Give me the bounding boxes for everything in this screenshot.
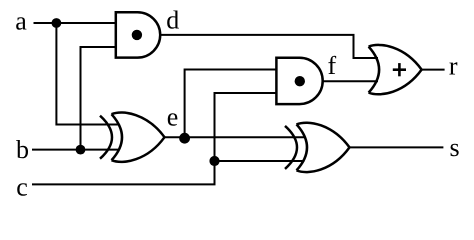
and dot U1	[132, 30, 142, 40]
wire b	[32, 149, 120, 151]
wire f from AND2 to OR	[323, 80, 378, 82]
svg-text:s: s	[450, 133, 460, 162]
wire d from AND1 to OR	[160, 35, 378, 58]
node c junction	[209, 156, 219, 166]
wire c junction to XOR2	[215, 160, 305, 162]
svg-text:d: d	[166, 6, 179, 35]
svg-text:b: b	[16, 135, 29, 164]
wire c	[32, 93, 277, 184]
xor-gate U5	[285, 123, 350, 172]
svg-text:c: c	[16, 173, 28, 202]
and dot U2	[295, 76, 305, 86]
svg-text:e: e	[167, 103, 179, 132]
node a junction	[52, 18, 62, 28]
wire a branch down to XOR1	[56, 23, 119, 125]
or-gate U3 (+)	[369, 45, 422, 94]
node e junction	[179, 133, 190, 144]
svg-text:f: f	[328, 51, 337, 80]
xor-gate U4	[100, 113, 165, 162]
wire e branch up to AND2	[185, 70, 277, 138]
and-gate U2 (dot)	[276, 58, 322, 104]
svg-text:r: r	[449, 51, 458, 80]
wire s output	[349, 146, 444, 148]
wire e from XOR1 to XOR2	[164, 136, 305, 138]
svg-text:a: a	[15, 7, 27, 36]
wire r output	[422, 69, 445, 71]
wire a	[34, 22, 117, 24]
wire b branch up to AND1	[81, 47, 117, 150]
plus sign U3	[393, 63, 406, 76]
and-gate U1 (dot)	[116, 12, 160, 57]
node b junction	[76, 145, 86, 155]
